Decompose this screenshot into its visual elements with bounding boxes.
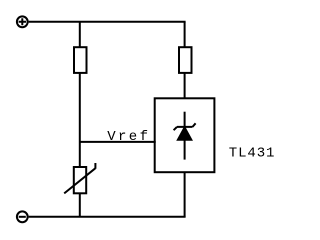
svg-text:Vref: Vref <box>107 129 150 145</box>
resistor R3 (variable) <box>64 163 95 193</box>
wire left branch top (+ rail to R1) <box>79 22 81 47</box>
wire node Vref (R1/R3 junction to U1 ref pin) <box>80 141 156 143</box>
op-amp U1 TL431 body <box>155 98 215 172</box>
wire R1 to R3 with Vref tap <box>79 73 81 167</box>
wire R2 to U1 <box>184 73 186 98</box>
wire U1 to bottom rail <box>184 172 186 217</box>
terminal - (negative supply) <box>17 211 28 222</box>
wire right branch top (+ rail to R2) <box>184 22 186 47</box>
resistor R2 <box>179 47 192 73</box>
zener diode D1 (inside TL431) <box>174 112 196 160</box>
svg-text:TL431: TL431 <box>229 145 276 161</box>
terminal + (positive supply) <box>17 16 28 27</box>
wire top rail <box>29 21 186 23</box>
wire bottom rail <box>29 216 186 218</box>
resistor R1 <box>74 47 87 73</box>
wire R3 to bottom rail <box>79 193 81 217</box>
